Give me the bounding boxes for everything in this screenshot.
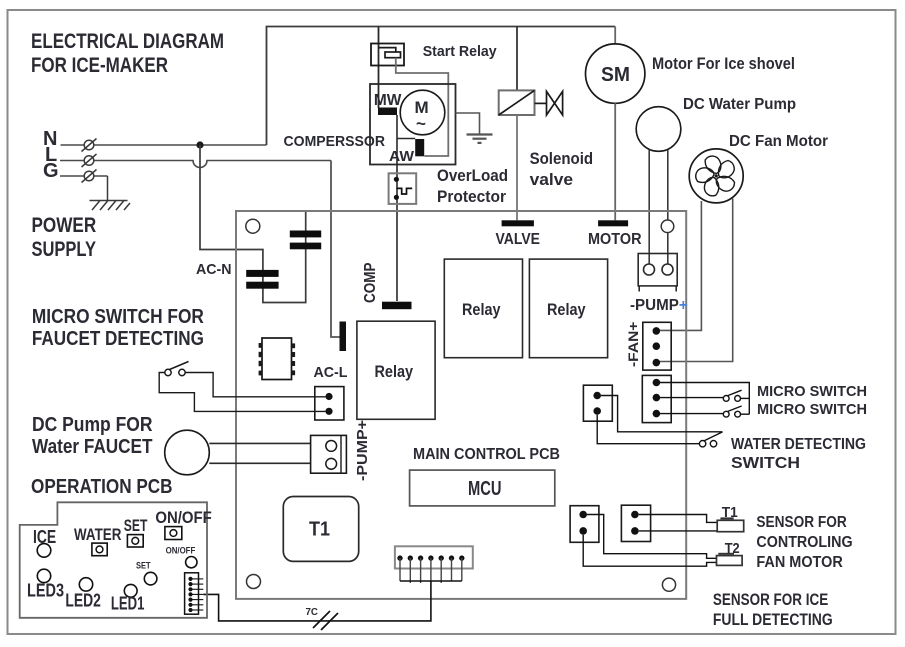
wire J4 pin2 to water switch xyxy=(597,415,699,444)
svg-text:DC Fan Motor: DC Fan Motor xyxy=(729,133,828,150)
terminal bar AW xyxy=(415,139,424,156)
svg-text:COMP: COMP xyxy=(362,263,379,304)
connector AC-L (2-pin) xyxy=(315,387,344,420)
operation PCB outline xyxy=(20,502,207,618)
wire J3 pin1 to switch common xyxy=(656,383,749,415)
wire faucet switch to AC-L pin2 xyxy=(159,373,325,412)
wire MW terminal down to COMP pad xyxy=(396,115,398,301)
water detecting switch S3 xyxy=(699,432,722,447)
svg-text:WATER: WATER xyxy=(74,525,121,544)
terminal bar MW xyxy=(378,108,397,116)
connector J4 (water detecting, 2-pin) xyxy=(583,385,612,421)
valve symbol xyxy=(547,91,563,115)
wire L with hop xyxy=(60,161,331,168)
svg-text:T1: T1 xyxy=(722,504,738,521)
terminal bar AC-L xyxy=(340,322,347,352)
svg-text:CONTROLING: CONTROLING xyxy=(756,534,852,551)
DC pump for water faucet (motor) xyxy=(165,430,210,475)
label Solenoid valve xyxy=(530,149,594,189)
overload protector bimetal element xyxy=(396,188,412,194)
wire N xyxy=(61,144,267,146)
MCU U2 xyxy=(410,470,555,506)
svg-text:valve: valve xyxy=(530,170,574,189)
wire G xyxy=(60,175,108,177)
svg-text:SENSOR FOR: SENSOR FOR xyxy=(756,514,847,531)
compressor box xyxy=(370,84,456,165)
wire pump to -PUMP+ connector pin2 xyxy=(667,150,669,264)
label OverLoad Protector xyxy=(437,166,508,206)
ground (chassis, compressor) xyxy=(467,135,493,143)
svg-text:FULL DETECTING: FULL DETECTING xyxy=(713,611,833,629)
wire coil to valve xyxy=(535,102,547,104)
switch on L line xyxy=(82,154,97,167)
label POWER SUPPLY xyxy=(32,214,97,261)
label SENSOR FOR CONTROLING FAN MOTOR xyxy=(756,514,852,571)
wire top bus to motor SM xyxy=(614,27,616,45)
terminal pad MOTOR xyxy=(598,220,628,226)
svg-text:AW: AW xyxy=(389,148,415,165)
svg-text:7C: 7C xyxy=(306,607,319,618)
svg-text:POWER: POWER xyxy=(32,214,97,237)
LED1 xyxy=(124,584,137,597)
switch on G line xyxy=(82,170,97,183)
svg-text:FOR ICE-MAKER: FOR ICE-MAKER xyxy=(31,54,168,77)
svg-text:Relay: Relay xyxy=(547,300,586,319)
svg-text:MICRO SWITCH: MICRO SWITCH xyxy=(757,383,867,400)
svg-text:-PUMP+: -PUMP+ xyxy=(354,420,371,481)
wire J4 pin1 to water switch lever xyxy=(601,396,723,432)
top bus wire xyxy=(267,27,616,146)
switch on N line xyxy=(82,139,97,152)
sensor T1 xyxy=(717,504,744,532)
ground (power supply earth) xyxy=(90,201,131,211)
svg-text:LED2: LED2 xyxy=(65,591,101,611)
svg-text:AC-L: AC-L xyxy=(314,364,348,381)
PCB mounting hole top-right xyxy=(661,220,674,233)
wire fan motor to -FAN+ pin1 xyxy=(660,201,702,330)
svg-text:ELECTRICAL DIAGRAM: ELECTRICAL DIAGRAM xyxy=(31,30,224,53)
svg-text:SUPPLY: SUPPLY xyxy=(32,238,97,261)
svg-text:FAN MOTOR: FAN MOTOR xyxy=(756,554,843,571)
relay K1 xyxy=(444,259,522,358)
wire SM to MOTOR pad xyxy=(614,103,616,220)
svg-text:LED1: LED1 xyxy=(111,594,144,614)
LED ON/OFF xyxy=(186,557,197,568)
PCB mounting hole top-left xyxy=(246,219,260,233)
LED3 xyxy=(37,569,50,582)
wire L to AC-L terminal xyxy=(331,161,340,338)
capacitor C1 (AC-N) xyxy=(246,270,278,277)
wire top bus to solenoid valve xyxy=(516,27,518,91)
wire solenoid to VALVE pad xyxy=(516,115,518,220)
connector J2 pins xyxy=(191,579,204,610)
svg-text:Relay: Relay xyxy=(462,300,501,319)
svg-text:LED3: LED3 xyxy=(27,581,64,601)
svg-text:SENSOR FOR ICE: SENSOR FOR ICE xyxy=(713,591,828,609)
svg-text:MICRO SWITCH FOR: MICRO SWITCH FOR xyxy=(32,306,204,328)
svg-text:COMPERSSOR: COMPERSSOR xyxy=(284,133,386,150)
svg-text:Water FAUCET: Water FAUCET xyxy=(32,436,153,458)
start relay contact xyxy=(379,48,396,52)
svg-text:ON/OFF: ON/OFF xyxy=(155,508,211,527)
wire J3 pin3 to micro switch 2 xyxy=(656,413,723,415)
wire J6 pin1 to sensor T1 xyxy=(639,515,718,523)
capacitor C2 xyxy=(290,231,321,238)
button SET xyxy=(127,535,143,547)
svg-text:Motor For Ice shovel: Motor For Ice shovel xyxy=(652,55,795,73)
overload protector box xyxy=(389,173,417,204)
wire J5 pin2 to sensor T2 xyxy=(583,535,716,567)
svg-text:Start Relay: Start Relay xyxy=(423,43,498,60)
svg-text:MOTOR: MOTOR xyxy=(588,231,642,248)
svg-text:Relay: Relay xyxy=(375,362,414,381)
wire pump to -PUMP+ connector pin1 xyxy=(648,150,650,265)
wire compressor to chassis ground xyxy=(456,113,480,135)
connector -PUMP+ (water pump, 2-pin) xyxy=(638,254,677,292)
svg-text:ON/OFF: ON/OFF xyxy=(166,546,196,557)
DC water pump motor xyxy=(636,107,681,152)
svg-text:-FAN+: -FAN+ xyxy=(625,322,641,367)
LED2 xyxy=(79,578,92,591)
svg-text:OPERATION PCB: OPERATION PCB xyxy=(31,476,173,498)
svg-text:SET: SET xyxy=(124,516,148,535)
transformer T1 xyxy=(283,497,358,562)
DC fan motor xyxy=(689,149,743,203)
svg-text:MCU: MCU xyxy=(468,478,502,500)
PCB mounting hole bottom-right xyxy=(662,578,675,591)
solenoid coil SV xyxy=(499,90,535,115)
button WATER xyxy=(92,543,107,556)
wire pump to -PUMP+ connector (lower) xyxy=(209,462,310,464)
terminal pad VALVE xyxy=(502,220,534,226)
micro switch S2 xyxy=(723,406,749,417)
svg-text:MICRO SWITCH: MICRO SWITCH xyxy=(757,401,867,418)
PCB mounting hole bottom-left xyxy=(247,575,261,589)
label SENSOR FOR ICE FULL DETECTING xyxy=(713,591,833,629)
micro switch (faucet detecting) xyxy=(165,362,189,376)
connector J6 (2-pin) xyxy=(621,505,650,541)
svg-text:Solenoid: Solenoid xyxy=(530,149,594,168)
button ON/OFF xyxy=(165,527,182,540)
wire pump to -PUMP+ connector (upper) xyxy=(209,442,310,444)
svg-text:Protector: Protector xyxy=(437,187,506,206)
wire ribbon cable to operation PCB xyxy=(203,581,431,621)
svg-text:~: ~ xyxy=(416,114,426,133)
label DC Pump FOR Water FAUCET xyxy=(32,414,153,458)
svg-text:MAIN CONTROL PCB: MAIN CONTROL PCB xyxy=(413,446,560,463)
relay K3 xyxy=(357,321,435,419)
svg-text:SM: SM xyxy=(601,64,630,86)
connector J1 (7-pin) xyxy=(395,546,473,568)
svg-text:MW: MW xyxy=(374,92,402,109)
junction node on N xyxy=(196,141,203,148)
wire top bus to start relay xyxy=(378,27,380,109)
svg-text:G: G xyxy=(43,160,59,182)
svg-text:T2: T2 xyxy=(725,540,740,557)
start relay box xyxy=(371,44,404,66)
wire fan motor to -FAN+ pin3 xyxy=(660,199,733,362)
IC U1 (8-pin) xyxy=(259,338,296,380)
svg-text:SWITCH: SWITCH xyxy=(731,455,800,472)
connector J1 pins xyxy=(400,558,462,583)
wire J5 pin1 to sensor T2 xyxy=(587,515,717,559)
wire from N junction to AC-N capacitors xyxy=(200,145,306,303)
svg-text:VALVE: VALVE xyxy=(496,231,541,248)
svg-text:OverLoad: OverLoad xyxy=(437,166,508,185)
terminal pad COMP xyxy=(382,302,412,310)
wire start relay to AW xyxy=(396,58,449,156)
LED SET xyxy=(144,572,157,585)
wire J3 pin2 to micro switch 1 xyxy=(656,397,723,399)
wire J1 bus xyxy=(400,580,462,582)
svg-text:-PUMP+: -PUMP+ xyxy=(630,297,688,314)
wire G to ground xyxy=(107,176,109,200)
main control PCB outline xyxy=(236,211,686,599)
sensor T2 xyxy=(717,540,743,565)
overload protector contact dots xyxy=(394,177,399,182)
svg-text:T1: T1 xyxy=(309,519,330,541)
micro switch S1 xyxy=(723,390,749,401)
motor M (compressor) xyxy=(400,90,445,135)
LED ICE xyxy=(37,544,51,558)
label MICRO SWITCH FOR FAUCET DETECTING xyxy=(32,306,204,350)
svg-text:SET: SET xyxy=(136,561,151,572)
svg-text:FAUCET DETECTING: FAUCET DETECTING xyxy=(32,328,204,350)
connector J2 (7-pin, operation PCB) xyxy=(185,573,199,614)
cable break marks xyxy=(313,611,338,630)
connector -PUMP+ (faucet pump) xyxy=(311,435,347,473)
motor SM (ice shovel) xyxy=(586,44,645,103)
svg-text:WATER DETECTING: WATER DETECTING xyxy=(731,436,866,453)
wire faucet switch to AC-L pin1 xyxy=(185,373,325,397)
relay K2 xyxy=(529,259,607,358)
svg-text:DC Water Pump: DC Water Pump xyxy=(683,96,796,113)
title xyxy=(31,30,224,77)
connector J3 (micro switches, 3-pin) xyxy=(642,375,671,422)
connector J5 (2-pin) xyxy=(570,506,599,543)
svg-text:AC-N: AC-N xyxy=(196,261,232,278)
wire J6 pin2 to sensor T1 xyxy=(639,530,718,532)
wire branch to AW xyxy=(397,138,415,140)
connector -FAN+ (3-pin) xyxy=(643,322,671,370)
svg-text:DC Pump FOR: DC Pump FOR xyxy=(32,414,153,436)
